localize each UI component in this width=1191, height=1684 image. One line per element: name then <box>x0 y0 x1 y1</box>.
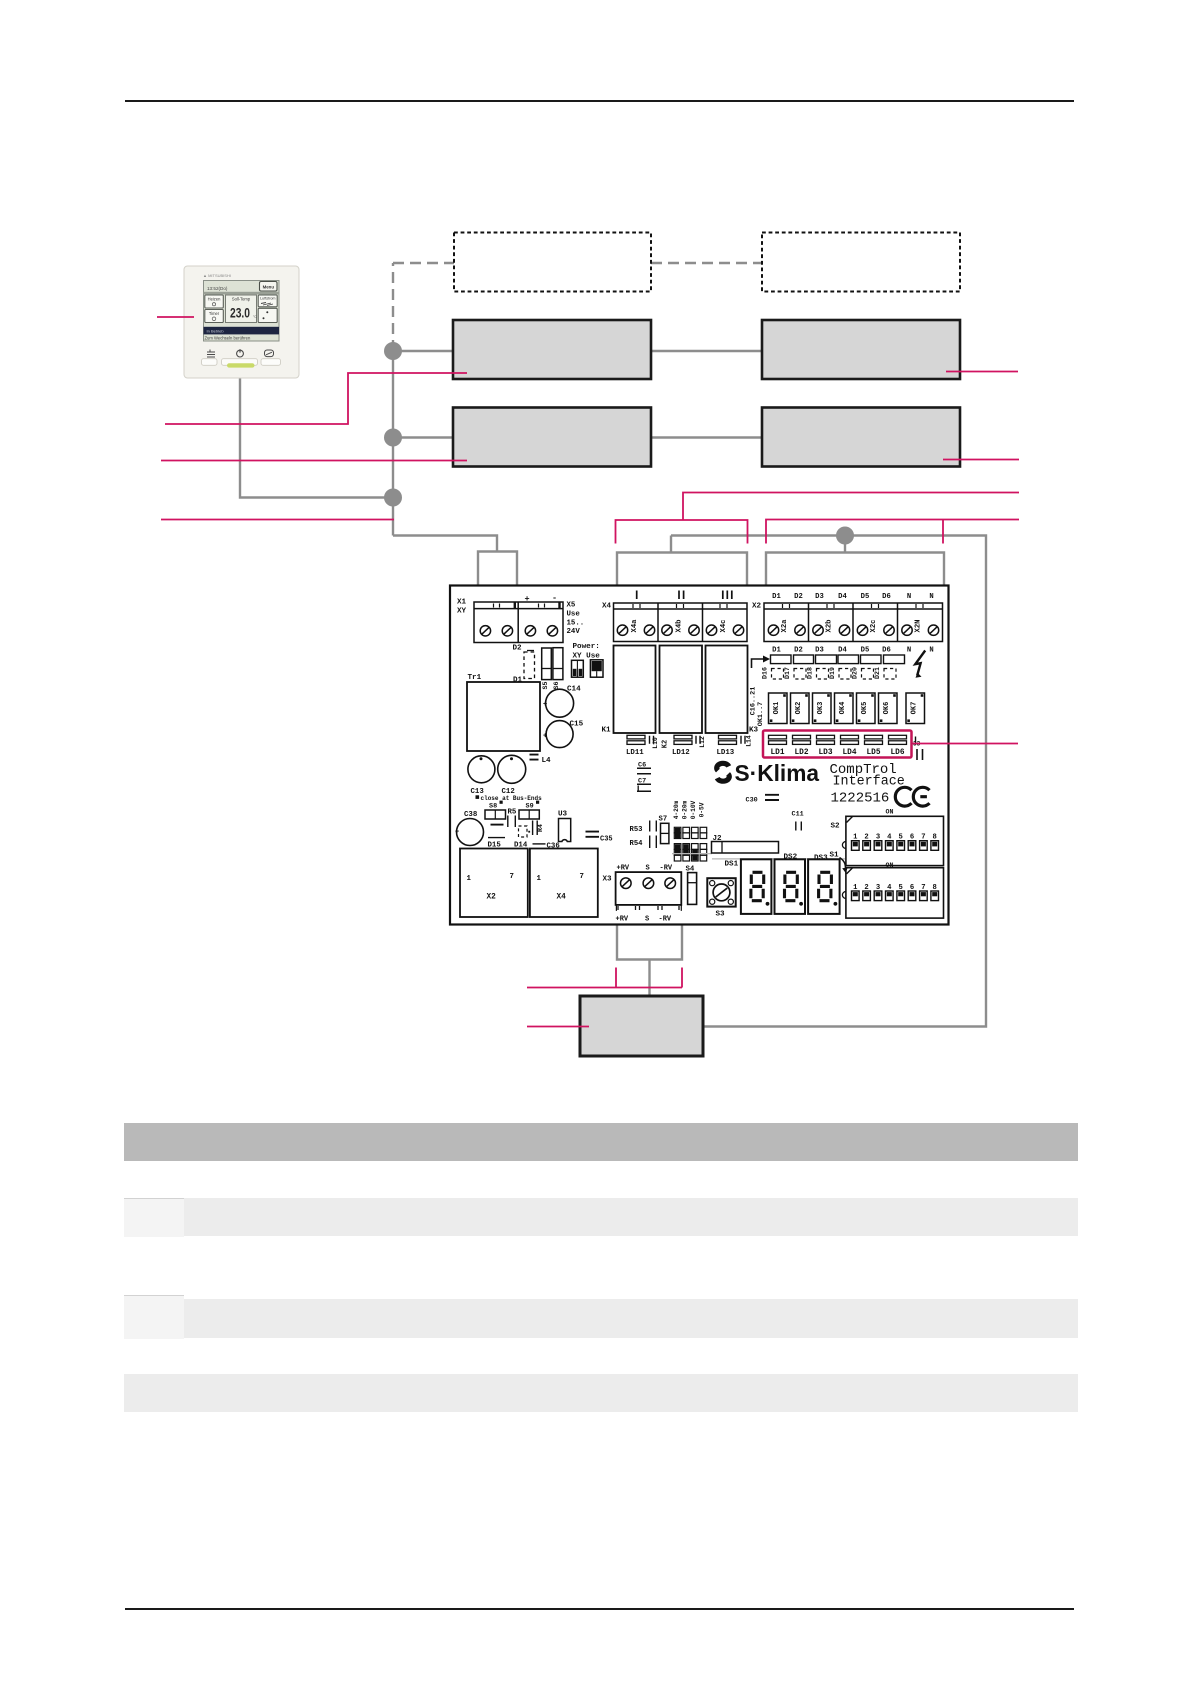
svg-text:close at Bus-Ends: close at Bus-Ends <box>481 795 543 802</box>
svg-text:C35: C35 <box>600 836 613 844</box>
svg-text:Soll-Temp: Soll-Temp <box>232 297 251 302</box>
svg-text:13:52(Do): 13:52(Do) <box>207 286 228 291</box>
bottom icon: louver <box>265 350 274 357</box>
svg-text:+: + <box>455 829 459 837</box>
optocouplers OK1-OK7 <box>769 693 925 724</box>
table row band 2 <box>124 1299 1078 1338</box>
svg-text:S: S <box>646 865 650 873</box>
svg-text:L4: L4 <box>542 757 552 765</box>
svg-text:°C: °C <box>253 315 257 319</box>
LED bars LD11 <box>627 735 745 744</box>
svg-text:L10: L10 <box>652 737 659 749</box>
svg-text:OK3: OK3 <box>817 702 825 715</box>
svg-text:24V: 24V <box>567 628 581 636</box>
lightning bolt mark <box>915 651 925 676</box>
table row1 left cell <box>124 1198 184 1237</box>
callout: trunk cable <box>161 519 394 521</box>
svg-text:Power:: Power: <box>573 643 600 651</box>
svg-text:N: N <box>907 647 911 655</box>
svg-text:4-20m: 4-20m <box>673 800 680 819</box>
D1-D6 N N labels below X2 <box>772 647 933 655</box>
svg-text:U3: U3 <box>558 811 568 819</box>
svg-text:D5: D5 <box>861 593 870 601</box>
terminal X1 <box>474 602 563 643</box>
svg-text:Heizen: Heizen <box>208 296 221 301</box>
svg-text:D2: D2 <box>794 647 803 655</box>
svg-text:D3: D3 <box>815 593 824 601</box>
table row2 left cell <box>124 1295 184 1339</box>
callout: remote control <box>157 316 194 318</box>
svg-text:▲ MITSUBISHI: ▲ MITSUBISHI <box>203 273 231 278</box>
svg-text:R54: R54 <box>630 840 644 848</box>
svg-text:0-10V: 0-10V <box>690 800 697 819</box>
svg-text:Timer: Timer <box>209 311 220 316</box>
CompTrol Interface 1222516 <box>830 762 905 807</box>
node: bus junction <box>836 527 854 545</box>
svg-text:D21: D21 <box>874 667 881 679</box>
svg-text:LD11: LD11 <box>626 749 644 757</box>
svg-text:X2c: X2c <box>870 620 878 633</box>
svg-text:K3: K3 <box>749 727 759 735</box>
svg-text:X1: X1 <box>457 599 467 607</box>
svg-text:S6: S6 <box>553 682 560 690</box>
svg-text:7: 7 <box>510 873 514 881</box>
relay K3 <box>706 646 748 734</box>
svg-text:C11: C11 <box>792 811 804 819</box>
svg-text:X4a: X4a <box>631 619 639 633</box>
wire: dashed bus to outdoor box 1 <box>393 262 454 264</box>
svg-text:X2: X2 <box>487 894 497 902</box>
svg-text:ON: ON <box>886 809 894 816</box>
svg-text:1: 1 <box>467 875 472 883</box>
Timer button <box>205 310 224 323</box>
resistor R4 <box>533 821 538 836</box>
bottom icon: power <box>237 350 244 357</box>
svg-text:N: N <box>907 593 911 601</box>
wire: dashed bus from trunk up <box>392 263 394 351</box>
svg-text:X2a: X2a <box>781 619 789 633</box>
X1 screws <box>480 626 557 636</box>
svg-text:-RV: -RV <box>660 865 673 873</box>
svg-text:OK5: OK5 <box>861 702 869 715</box>
capacitor C35 <box>586 832 600 837</box>
node: trunk junction 1 <box>384 342 402 360</box>
svg-text:DS1: DS1 <box>725 861 739 869</box>
wire: analog box riser <box>648 960 650 997</box>
indoor unit box row2 col2 <box>762 408 960 467</box>
wire: X2 bracket <box>766 553 944 587</box>
callout: indoor unit row1 (elbow) <box>165 373 467 424</box>
svg-text:Menu: Menu <box>263 284 275 289</box>
svg-text:X2b: X2b <box>826 620 834 633</box>
svg-text:1222516: 1222516 <box>831 791 890 807</box>
svg-text:Zum Wechseln berühren: Zum Wechseln berühren <box>205 336 251 341</box>
jumper Use <box>590 660 603 677</box>
svg-text:K1: K1 <box>602 727 612 735</box>
svg-text:D5: D5 <box>861 647 870 655</box>
arrow to varistor row <box>752 659 766 668</box>
wire: X1 bracket <box>478 552 517 587</box>
wire: indoor box1 row2 to box2 row2 <box>651 436 762 438</box>
X2 screws <box>768 625 938 635</box>
svg-text:R53: R53 <box>630 826 643 834</box>
svg-text:X4c: X4c <box>720 620 728 633</box>
X4 screws <box>617 625 743 635</box>
Menu button <box>260 282 278 292</box>
wire: trunk to indoor box row1 <box>393 350 453 352</box>
wire: bus to analog box <box>671 536 986 1027</box>
capacitor C12 <box>498 755 526 783</box>
jumper XY <box>572 660 584 677</box>
capacitor S5 <box>542 648 552 680</box>
indoor unit box row1 col1 <box>453 320 651 379</box>
X4 pin-count marks I II III <box>637 591 732 600</box>
svg-text:D20: D20 <box>852 667 859 679</box>
svg-text:S1: S1 <box>830 852 840 860</box>
wire: indoor box1 row1 to box2 row1 <box>651 350 762 352</box>
svg-text:D6: D6 <box>882 647 891 655</box>
wire: trunk to indoor box row2 <box>393 436 453 438</box>
svg-text:-: - <box>552 593 557 603</box>
highlight box around LD1-LD6 <box>763 731 912 758</box>
relay K2 <box>660 646 703 734</box>
Luftstrom button <box>258 295 277 307</box>
svg-text:XY: XY <box>457 608 467 616</box>
capacitor S6 <box>553 648 563 680</box>
svg-text:R4: R4 <box>537 824 544 832</box>
status navy bar <box>204 327 280 335</box>
svg-text:DS2: DS2 <box>784 854 798 862</box>
pushbutton S3 <box>707 878 735 906</box>
svg-text:LD5: LD5 <box>866 749 880 757</box>
svg-text:D1: D1 <box>772 593 781 601</box>
bottom icon: function <box>207 350 215 358</box>
LED bars LD12 <box>674 735 692 739</box>
svg-text:0-5V: 0-5V <box>698 802 705 817</box>
svg-text:7: 7 <box>580 873 584 881</box>
svg-text:LD13: LD13 <box>717 749 735 757</box>
silkscreen traces <box>672 854 845 859</box>
inductor L4 <box>530 755 539 760</box>
callout: indoor unit row2 <box>161 460 467 462</box>
svg-text:D3: D3 <box>815 647 824 655</box>
svg-text:OK4: OK4 <box>839 702 847 715</box>
dashed outline near D14 <box>519 826 528 837</box>
CE mark <box>895 787 929 806</box>
svg-text:K2: K2 <box>662 740 670 748</box>
terminal X2 <box>764 603 943 642</box>
svg-text:D2: D2 <box>513 645 523 653</box>
indoor unit box row2 col1 <box>453 408 651 467</box>
varistor row D16-D21 <box>771 655 905 664</box>
callout: LED row LD1-LD6 <box>912 743 1018 745</box>
svg-text:LD12: LD12 <box>672 749 690 757</box>
rotated label C16..21 / OK1..7 <box>750 687 766 727</box>
svg-text:D4: D4 <box>838 593 847 601</box>
svg-text:X5: X5 <box>567 602 576 610</box>
svg-text:OK1..7: OK1..7 <box>757 702 765 726</box>
rotated range labels <box>673 800 705 819</box>
callout: box row1 right <box>946 371 1018 373</box>
table row band 3 <box>124 1374 1078 1412</box>
svg-text:+RV: +RV <box>617 865 630 873</box>
svg-text:LD1: LD1 <box>770 749 784 757</box>
dashed diode outlines D16..D21 <box>772 669 897 680</box>
Power: XY Use labels <box>573 643 601 661</box>
svg-text:S·Klima: S·Klima <box>735 760 820 786</box>
note close at Bus-Ends <box>476 795 480 799</box>
svg-text:LD3: LD3 <box>818 749 832 757</box>
svg-text:R5: R5 <box>508 809 517 817</box>
svg-text:S2: S2 <box>831 823 841 831</box>
capacitors C6 C7 <box>638 762 646 786</box>
capacitor C13 <box>468 756 495 783</box>
svg-text:+: + <box>543 733 547 741</box>
node: trunk junction 3 <box>384 489 402 507</box>
svg-text:D1: D1 <box>513 677 523 685</box>
svg-text:X2N: X2N <box>915 620 923 633</box>
relay K1 <box>614 646 656 734</box>
jumper matrix bottom <box>674 844 706 861</box>
svg-text:D19: D19 <box>829 667 836 679</box>
svg-text:OK1: OK1 <box>773 702 781 715</box>
svg-text:+RV: +RV <box>616 916 629 924</box>
svg-text:X3: X3 <box>603 876 613 884</box>
LED row LD1-LD6 <box>769 735 916 744</box>
svg-text:D16: D16 <box>762 667 769 679</box>
dashed outline D1/D2 <box>524 652 535 679</box>
outdoor unit dashed box 1 <box>454 233 651 292</box>
table row band 1 <box>124 1198 1078 1236</box>
svg-text:L12: L12 <box>699 736 706 748</box>
svg-text:23.0: 23.0 <box>230 306 250 321</box>
wire: trunk to X1 <box>393 536 497 552</box>
remote body <box>184 266 299 378</box>
jumper matrix top <box>674 827 706 838</box>
svg-text:OK6: OK6 <box>883 702 891 715</box>
Heizen button <box>205 295 224 308</box>
svg-text:D18: D18 <box>807 667 814 679</box>
diode D15 <box>488 837 505 839</box>
wire: X4 bracket <box>617 553 747 587</box>
7-segment digits <box>751 872 832 900</box>
svg-text:C30: C30 <box>746 797 758 805</box>
svg-text:-RV: -RV <box>659 916 672 924</box>
svg-text:OK7: OK7 <box>910 702 918 715</box>
node: trunk junction 2 <box>384 429 402 447</box>
svg-text:L14: L14 <box>746 735 753 747</box>
wire: X2 riser <box>844 536 846 553</box>
capacitor C36 <box>533 843 546 845</box>
socket X2 <box>460 849 528 918</box>
D1-D6 N N labels above X2 <box>772 593 933 601</box>
callout: analog wires bracket <box>527 968 682 988</box>
callout: X4 wires (elbow + bracket) <box>683 493 1019 521</box>
svg-text:OK2: OK2 <box>795 702 803 715</box>
wire: remote control drop <box>240 378 393 498</box>
svg-text:S7: S7 <box>659 816 668 824</box>
PCB board outline <box>450 586 949 925</box>
wire: X3 bracket below PCB <box>617 925 682 960</box>
svg-text:In Betrieb: In Betrieb <box>207 328 225 333</box>
bottom buttons <box>202 359 218 366</box>
Soll-Temp panel <box>226 295 257 323</box>
remote screen <box>204 281 280 342</box>
svg-text:X4: X4 <box>557 894 567 902</box>
outdoor unit dashed box 2 <box>762 233 960 292</box>
svg-text:+: + <box>543 701 547 709</box>
svg-text:D2: D2 <box>794 593 803 601</box>
analog output box <box>580 996 703 1056</box>
table header bar <box>124 1123 1078 1161</box>
svg-text:15..: 15.. <box>567 620 585 628</box>
LED bars LD13 <box>719 735 737 739</box>
screen divider strip <box>204 292 280 295</box>
svg-text:X4b: X4b <box>676 620 684 633</box>
svg-text:N: N <box>929 593 933 601</box>
callout: analog box <box>527 1026 589 1028</box>
socket X4 <box>530 849 598 918</box>
svg-text:X2: X2 <box>752 603 762 611</box>
svg-text:1: 1 <box>537 875 542 883</box>
fan speed button <box>258 308 277 322</box>
svg-text:D17: D17 <box>784 667 791 679</box>
svg-text:S5: S5 <box>542 682 549 690</box>
S-Klima logo <box>717 760 819 786</box>
svg-text:LD6: LD6 <box>890 749 904 757</box>
svg-text:Use: Use <box>567 611 581 619</box>
svg-text:LD4: LD4 <box>842 749 856 757</box>
callout: X2 wires (bracket) <box>766 520 1019 544</box>
indoor unit box row1 col2 <box>762 320 960 379</box>
svg-text:Luftstrom: Luftstrom <box>260 296 275 300</box>
callout: box row2 right <box>943 459 1019 461</box>
svg-text:Tr1: Tr1 <box>468 674 482 682</box>
svg-text:LD2: LD2 <box>794 749 808 757</box>
wire: dashed bus between outdoor boxes <box>651 262 762 264</box>
terminal X4 <box>614 603 748 642</box>
svg-text:D4: D4 <box>838 647 847 655</box>
svg-text:N: N <box>929 647 933 655</box>
svg-text:X4: X4 <box>602 603 612 611</box>
header rule <box>125 100 1074 102</box>
svg-text:+: + <box>525 594 530 604</box>
svg-text:0-20m: 0-20m <box>682 800 689 819</box>
footer rule <box>125 1608 1074 1610</box>
wire: trunk vertical <box>392 351 394 536</box>
svg-text:Interface: Interface <box>833 775 905 790</box>
svg-text:D6: D6 <box>882 593 891 601</box>
LED bar <box>227 363 255 367</box>
svg-text:S3: S3 <box>716 911 726 919</box>
wire: X4 riser <box>670 536 672 553</box>
svg-text:D1: D1 <box>772 647 781 655</box>
svg-text:S: S <box>645 916 649 924</box>
